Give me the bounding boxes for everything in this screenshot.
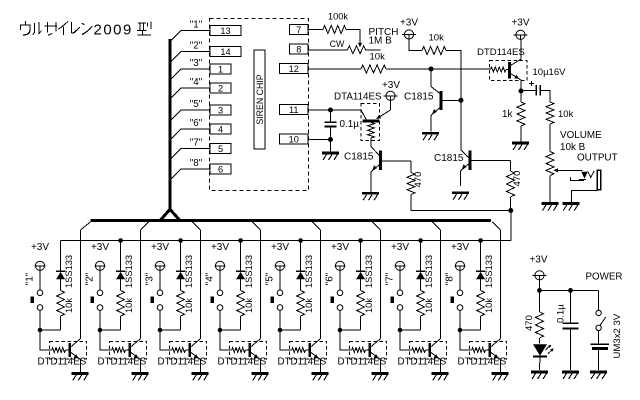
push button &quot;8&quot; xyxy=(445,272,463,310)
wire mix node down xyxy=(510,211,512,241)
wire "1" from bus to pin 13 xyxy=(170,20,210,42)
svg-text:1SS133: 1SS133 xyxy=(304,255,314,288)
svg-text:0.1µ: 0.1µ xyxy=(556,304,567,323)
chip pin box 13 xyxy=(210,26,241,36)
resistor 10k cell 6 xyxy=(340,291,374,331)
wire 10k to bases xyxy=(446,51,461,150)
push button &quot;3&quot; xyxy=(145,272,163,310)
transistor DTA114ES xyxy=(334,91,391,146)
capacitor 0.1u (power) xyxy=(556,290,579,370)
chip pin box 2 xyxy=(210,83,231,93)
node rail junction cell 8 xyxy=(478,238,483,243)
wire pin7 xyxy=(308,29,323,31)
svg-text:470: 470 xyxy=(413,172,424,188)
chip pin box 7 xyxy=(290,25,309,35)
wire common rail xyxy=(61,240,511,242)
wire node to base cell 4 xyxy=(220,330,232,350)
node pin11 cap junction xyxy=(328,108,333,113)
svg-text:13: 13 xyxy=(220,26,230,36)
wire button to node cell 4 xyxy=(219,310,221,330)
wire bus vertical (thick) xyxy=(168,39,171,210)
wire node to base cell 8 xyxy=(460,330,472,350)
+3V supply cell 8 xyxy=(451,242,469,290)
push button &quot;1&quot; xyxy=(25,272,43,310)
wire bus drop cell 3 xyxy=(193,222,201,339)
push button &quot;4&quot; xyxy=(205,272,223,310)
ground Q2 xyxy=(452,193,469,200)
node rail junction cell 6 xyxy=(358,238,363,243)
transistor DTD114ES cell 4 xyxy=(218,339,267,372)
svg-text:"1": "1" xyxy=(25,272,36,285)
svg-text:10k: 10k xyxy=(304,298,314,313)
capacitor 10u16V xyxy=(524,67,567,96)
svg-text:DTD114ES: DTD114ES xyxy=(38,357,87,368)
resistor 10k (volume feed) xyxy=(546,102,574,124)
svg-text:8: 8 xyxy=(296,45,301,55)
resistor 10k (pin12) xyxy=(361,65,386,73)
volume wiper xyxy=(553,152,617,172)
svg-text:+3V: +3V xyxy=(271,242,289,253)
svg-text:"4": "4" xyxy=(205,272,216,285)
transistor DTD114ES cell 3 xyxy=(158,339,207,372)
ground cell 1 xyxy=(72,374,89,381)
resistor 10k (top) xyxy=(422,33,446,55)
svg-text:10k: 10k xyxy=(64,298,74,313)
+3V supply (DTD) xyxy=(511,18,529,40)
chip pin box 3 xyxy=(210,105,231,115)
wire pin12 xyxy=(308,68,361,70)
+3V supply cell 7 xyxy=(391,242,409,290)
ground volume pot xyxy=(542,204,559,211)
svg-text:+3V: +3V xyxy=(400,18,418,29)
svg-text:UM3x2 3V: UM3x2 3V xyxy=(612,313,623,358)
wire "2" from bus to pin 14 xyxy=(170,41,210,63)
wire "7" from bus to pin 5 xyxy=(170,138,210,160)
ground cell 3 xyxy=(192,374,209,381)
resistor 470 (LED) xyxy=(524,290,544,343)
siren chip body box xyxy=(254,50,265,149)
node cell 8 xyxy=(458,328,463,333)
svg-text:"3": "3" xyxy=(190,58,203,69)
capacitor 0.1u (pin11) xyxy=(325,110,360,140)
wire Q3 collector down xyxy=(410,161,412,173)
ground pin10 xyxy=(322,140,339,161)
ground output jack xyxy=(562,204,579,211)
svg-text:1SS133: 1SS133 xyxy=(364,255,374,288)
svg-text:DTD114ES: DTD114ES xyxy=(278,357,327,368)
wire "4" from bus to pin 2 xyxy=(170,77,210,99)
svg-text:11: 11 xyxy=(289,105,299,115)
svg-text:DTD114ES: DTD114ES xyxy=(98,357,147,368)
svg-text:"5": "5" xyxy=(265,272,276,285)
title text ウルサイレン2009型 xyxy=(21,21,152,39)
svg-text:1SS133: 1SS133 xyxy=(124,255,134,288)
diode 1SS133 cell 7 xyxy=(416,241,434,291)
svg-text:POWER: POWER xyxy=(586,271,623,282)
+3V supply (power) xyxy=(529,255,547,291)
svg-text:10k: 10k xyxy=(370,51,386,62)
resistor 470 (Q3 load) xyxy=(407,172,424,195)
push button &quot;2&quot; xyxy=(85,272,103,310)
svg-text:CW: CW xyxy=(330,39,345,49)
svg-text:"8": "8" xyxy=(445,272,456,285)
chip pin box 6 xyxy=(210,164,231,174)
transistor DTD114ES cell 8 xyxy=(458,339,507,372)
svg-text:DTD114ES: DTD114ES xyxy=(477,47,525,58)
svg-text:10k: 10k xyxy=(124,298,134,313)
svg-text:C1815: C1815 xyxy=(434,153,464,164)
wire button to node cell 3 xyxy=(159,310,161,330)
wire node to base cell 1 xyxy=(40,330,52,350)
svg-text:2009: 2009 xyxy=(94,22,133,39)
wire bus drop cell 7 xyxy=(433,222,441,339)
svg-text:+3V: +3V xyxy=(91,242,109,253)
+3V supply cell 6 xyxy=(331,242,349,290)
svg-text:1SS133: 1SS133 xyxy=(64,255,74,288)
svg-text:12: 12 xyxy=(289,64,299,74)
wire bus drop cell 2 xyxy=(141,222,149,339)
chip pin box 14 xyxy=(210,47,241,57)
wire "6" from bus to pin 4 xyxy=(170,118,210,140)
svg-text:470: 470 xyxy=(524,315,535,331)
transistor C1815 Q3 xyxy=(344,147,411,193)
svg-text:+3V: +3V xyxy=(511,18,529,29)
chip pin box 1 xyxy=(210,64,231,74)
node rail junction cell 3 xyxy=(178,238,183,243)
svg-text:5: 5 xyxy=(218,144,223,154)
svg-text:14: 14 xyxy=(220,47,230,57)
svg-text:10k: 10k xyxy=(429,33,445,44)
resistor 1k xyxy=(502,91,525,142)
wire bus funnel xyxy=(161,209,180,220)
wire cap to volume xyxy=(541,91,550,103)
resistor 470 (Q2 load) xyxy=(507,171,523,197)
wire 100k to wiper xyxy=(346,30,360,43)
siren chip dashed outline U1 xyxy=(210,19,309,191)
node cell 6 xyxy=(338,328,343,333)
svg-text:10µ16V: 10µ16V xyxy=(533,67,567,78)
wire pin12 to DTD114ES xyxy=(386,68,491,70)
ground 1k xyxy=(512,143,529,150)
svg-text:+3V: +3V xyxy=(382,80,400,91)
ground cell 6 xyxy=(372,374,389,381)
+3V supply cell 3 xyxy=(151,242,169,290)
ground cell 4 xyxy=(252,374,269,381)
svg-text:"5": "5" xyxy=(190,99,203,110)
svg-text:6: 6 xyxy=(218,164,223,174)
node cell 3 xyxy=(158,328,163,333)
ground cell 2 xyxy=(132,374,149,381)
node cell 7 xyxy=(398,328,403,333)
svg-text:"6": "6" xyxy=(190,118,203,129)
resistor 100k xyxy=(323,12,348,34)
+3V supply cell 1 xyxy=(31,242,49,290)
svg-text:1SS133: 1SS133 xyxy=(424,255,434,288)
ground cell 8 xyxy=(492,374,509,381)
svg-text:"6": "6" xyxy=(325,272,336,285)
+3V supply cell 4 xyxy=(211,242,229,290)
svg-text:+3V: +3V xyxy=(451,242,469,253)
svg-text:"7": "7" xyxy=(385,272,396,285)
svg-text:1SS133: 1SS133 xyxy=(244,255,254,288)
node cell 1 xyxy=(38,328,43,333)
wire bus drop cell 5 xyxy=(313,222,321,339)
+3V supply cell 2 xyxy=(91,242,109,290)
+3V supply cell 5 xyxy=(271,242,289,290)
wire button to node cell 5 xyxy=(279,310,281,330)
node base junction xyxy=(459,98,464,103)
resistor 10k cell 4 xyxy=(220,291,254,331)
svg-text:10k: 10k xyxy=(184,298,194,313)
svg-text:+3V: +3V xyxy=(331,242,349,253)
LED xyxy=(533,344,554,370)
svg-text:10k: 10k xyxy=(364,298,374,313)
svg-text:"7": "7" xyxy=(190,138,203,149)
svg-text:1: 1 xyxy=(218,64,223,74)
resistor 10k cell 5 xyxy=(280,291,314,331)
wire to volume pot xyxy=(549,124,551,152)
ground cell 5 xyxy=(312,374,329,381)
svg-text:DTD114ES: DTD114ES xyxy=(398,357,447,368)
chip pin box 10 xyxy=(280,134,309,144)
svg-text:C1815: C1815 xyxy=(404,92,434,103)
ground cell 7 xyxy=(432,374,449,381)
potentiometer PITCH 1M B xyxy=(348,27,399,62)
svg-text:+3V: +3V xyxy=(211,242,229,253)
siren chip label xyxy=(255,74,265,124)
svg-text:10k: 10k xyxy=(424,298,434,313)
wire button to node cell 1 xyxy=(39,310,41,330)
transistor DTD114ES cell 7 xyxy=(398,339,447,372)
push button &quot;7&quot; xyxy=(385,272,403,310)
transistor DTD114ES cell 2 xyxy=(98,339,147,372)
battery UM3x2 3V xyxy=(591,313,623,370)
svg-text:+3V: +3V xyxy=(151,242,169,253)
resistor 10k cell 8 xyxy=(460,291,494,331)
transistor DTD114ES cell 5 xyxy=(278,339,327,372)
potentiometer VOLUME 10k B xyxy=(546,130,602,202)
diode 1SS133 cell 4 xyxy=(236,241,254,291)
svg-text:"2": "2" xyxy=(85,272,96,285)
chip pin box 12 xyxy=(280,64,309,74)
wire bus horizontal (thick) xyxy=(91,219,492,222)
svg-text:10: 10 xyxy=(289,134,299,144)
wire pin11 xyxy=(308,109,361,111)
ground LED xyxy=(531,372,548,379)
wire "3" from bus to pin 1 xyxy=(170,58,210,80)
wire bus drop cell 1 xyxy=(81,222,91,339)
wire node to base cell 2 xyxy=(100,330,112,350)
node cell 4 xyxy=(218,328,223,333)
svg-text:+3V: +3V xyxy=(391,242,409,253)
wire power rail xyxy=(540,271,623,290)
wire button to node cell 6 xyxy=(339,310,341,330)
svg-text:"3": "3" xyxy=(145,272,156,285)
diode 1SS133 cell 5 xyxy=(296,241,314,291)
svg-text:3: 3 xyxy=(218,105,223,115)
wire button to node cell 2 xyxy=(99,310,101,330)
svg-text:SIREN CHIP: SIREN CHIP xyxy=(255,74,265,124)
diode 1SS133 cell 8 xyxy=(476,241,494,291)
wire node to base cell 6 xyxy=(340,330,352,350)
node cell 2 xyxy=(98,328,103,333)
wire node to base cell 3 xyxy=(160,330,172,350)
wire Q2 collector down xyxy=(510,160,512,171)
svg-text:10k: 10k xyxy=(484,298,494,313)
node pin12/collector junction xyxy=(429,67,434,72)
output jack xyxy=(570,170,600,202)
node emitter junction xyxy=(519,89,524,94)
wire button to node cell 8 xyxy=(459,310,461,330)
transistor DTD114ES cell 6 xyxy=(338,339,387,372)
push button &quot;5&quot; xyxy=(265,272,283,310)
wire pin8 xyxy=(308,39,348,50)
node cell 5 xyxy=(278,328,283,333)
chip pin box 8 xyxy=(290,44,309,54)
push button &quot;6&quot; xyxy=(325,272,343,310)
svg-text:DTA114ES: DTA114ES xyxy=(334,91,382,102)
svg-text:DTD114ES: DTD114ES xyxy=(338,357,387,368)
diode 1SS133 cell 6 xyxy=(356,241,374,291)
svg-text:"2": "2" xyxy=(190,41,203,52)
diode 1SS133 cell 3 xyxy=(176,241,194,291)
svg-text:"1": "1" xyxy=(190,20,203,31)
transistor DTD114ES (output driver) xyxy=(477,40,527,91)
svg-text:7: 7 xyxy=(296,25,301,35)
svg-text:+3V: +3V xyxy=(529,255,547,266)
svg-text:2: 2 xyxy=(218,83,223,93)
svg-text:VOLUME: VOLUME xyxy=(560,130,602,141)
node pin10 junction xyxy=(328,137,333,142)
node rail junction cell 7 xyxy=(418,238,423,243)
node rail junction cell 4 xyxy=(238,238,243,243)
svg-text:1M B: 1M B xyxy=(369,35,393,46)
chip pin box 11 xyxy=(280,105,309,115)
svg-text:"8": "8" xyxy=(190,158,203,169)
transistor C1815 Q2 xyxy=(434,150,511,186)
pot wiper arrow xyxy=(358,43,362,48)
node mix junction xyxy=(508,208,513,213)
node rail junction cell 5 xyxy=(298,238,303,243)
resistor 10k cell 2 xyxy=(100,291,134,331)
svg-text:10k: 10k xyxy=(244,298,254,313)
svg-text:4: 4 xyxy=(218,124,223,134)
+3V supply (DTA) xyxy=(382,80,400,110)
wire bus drop cell 4 xyxy=(253,222,261,339)
svg-text:DTD114ES: DTD114ES xyxy=(218,357,267,368)
+3V supply (top middle) xyxy=(400,18,422,51)
svg-text:10k: 10k xyxy=(558,109,574,120)
node power 2 xyxy=(568,288,573,293)
svg-text:OUTPUT: OUTPUT xyxy=(577,152,618,163)
chip pin box 4 xyxy=(210,124,231,134)
wire "8" from bus to pin 6 xyxy=(170,158,210,180)
ground battery xyxy=(590,372,607,379)
power switch xyxy=(596,290,606,330)
svg-text:100k: 100k xyxy=(328,12,349,22)
transistor C1815 Q1 xyxy=(404,70,461,132)
svg-text:10k B: 10k B xyxy=(560,142,586,153)
wire button to node cell 7 xyxy=(399,310,401,330)
wire node to base cell 5 xyxy=(280,330,292,350)
wire "5" from bus to pin 3 xyxy=(170,99,210,121)
resistor 10k cell 7 xyxy=(400,291,434,331)
node rail junction cell 2 xyxy=(118,238,123,243)
wire bus drop cell 8 xyxy=(493,222,501,339)
chip pin box 5 xyxy=(210,144,231,154)
svg-text:"4": "4" xyxy=(190,77,203,88)
wire node to base cell 7 xyxy=(400,330,412,350)
ground Q1 xyxy=(422,133,439,140)
resistor 10k cell 3 xyxy=(160,291,194,331)
wire 470 to node xyxy=(510,197,512,211)
svg-text:+3V: +3V xyxy=(31,242,49,253)
svg-text:1SS133: 1SS133 xyxy=(484,255,494,288)
resistor 10k cell 1 xyxy=(40,291,74,331)
node power 1 xyxy=(537,288,542,293)
diode 1SS133 cell 2 xyxy=(116,241,134,291)
transistor DTD114ES cell 1 xyxy=(38,339,87,372)
svg-text:DTD114ES: DTD114ES xyxy=(158,357,207,368)
svg-text:470: 470 xyxy=(512,171,523,187)
wire pin10 xyxy=(308,139,331,141)
diode 1SS133 cell 1 xyxy=(56,241,74,291)
ground 0.1u xyxy=(562,372,579,379)
svg-text:DTD114ES: DTD114ES xyxy=(458,357,507,368)
ground Q3 xyxy=(362,193,379,200)
wire bus drop cell 6 xyxy=(373,222,381,339)
svg-text:C1815: C1815 xyxy=(344,152,374,163)
wire 470s to mix node xyxy=(411,195,511,211)
svg-text:0.1µ: 0.1µ xyxy=(340,119,360,130)
svg-text:1k: 1k xyxy=(502,109,512,120)
svg-text:1SS133: 1SS133 xyxy=(184,255,194,288)
